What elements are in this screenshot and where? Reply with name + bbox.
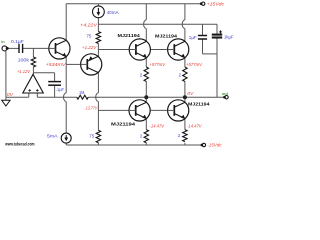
transistor Q1 xyxy=(49,38,70,59)
wire T3 emitter column xyxy=(184,58,186,67)
terminal in xyxy=(2,46,7,51)
resistor R5 2 xyxy=(144,67,148,82)
terminal out xyxy=(225,96,228,99)
wire hop T2 collector over +4.22V xyxy=(144,20,147,29)
svg-text:2: 2 xyxy=(178,72,181,77)
wire Q6 emitter resistor xyxy=(184,119,186,130)
svg-text:+577mV: +577mV xyxy=(186,62,202,68)
svg-text:MJ21194: MJ21194 xyxy=(111,121,136,126)
terminal +15Vdc xyxy=(202,2,205,5)
resistor R7 2 xyxy=(144,130,148,143)
svg-text:+1.22V: +1.22V xyxy=(82,45,97,51)
svg-text:40mA: 40mA xyxy=(107,10,119,15)
op-amp U1 xyxy=(23,74,44,93)
svg-text:www.tubecad.com: www.tubecad.com xyxy=(4,141,34,146)
svg-text:2: 2 xyxy=(140,133,143,138)
svg-text:+4.22V: +4.22V xyxy=(80,22,97,28)
current source I2 5mA xyxy=(61,133,71,143)
resistor R8 2 xyxy=(183,130,187,142)
resistor R1 100k xyxy=(31,57,35,67)
wire output rail right xyxy=(88,96,224,98)
wire cap C4 leads xyxy=(216,24,218,33)
svg-text:100k: 100k xyxy=(18,58,30,63)
transistor Q3 MJ21194 xyxy=(129,39,150,60)
resistor R4 75 xyxy=(96,130,100,143)
transistor Q4 MJ21194 xyxy=(168,39,189,60)
wire input xyxy=(7,47,19,49)
wire Q5 emitter resistor xyxy=(145,119,147,130)
wire Q5-Q6 base link xyxy=(150,109,168,111)
wire hop 5mA over feedback rail xyxy=(63,93,66,102)
svg-text:+1.12V: +1.12V xyxy=(17,69,31,75)
svg-text:5mA: 5mA xyxy=(47,133,58,138)
transistor Q6 MJ21194 xyxy=(168,100,189,121)
capacitor C2 .1uF xyxy=(48,81,61,83)
svg-text:-13.77V: -13.77V xyxy=(85,106,98,112)
node +4.22V wire xyxy=(98,23,217,25)
resistor R3 75 xyxy=(96,32,100,44)
svg-text:1µF: 1µF xyxy=(189,35,197,40)
svg-text:MJ21194: MJ21194 xyxy=(155,33,178,38)
svg-text:2: 2 xyxy=(140,72,143,77)
transistor Q5 MJ21194 xyxy=(129,100,150,121)
capacitor C1 0.1uF xyxy=(18,44,20,53)
wire hop T3 collector over +4.22V xyxy=(182,20,185,29)
capacitor C3 1uF xyxy=(198,35,207,37)
wire cap C3 leads xyxy=(202,24,204,35)
resistor R6 2 xyxy=(183,67,187,82)
current source I1 40mA xyxy=(93,6,105,18)
svg-text:-14.47V: -14.47V xyxy=(150,123,165,129)
node -13.77V wire xyxy=(98,109,129,111)
wire spine middle xyxy=(97,50,99,58)
wire spine top xyxy=(97,4,99,6)
svg-text:+15Vdc: +15Vdc xyxy=(207,2,225,8)
node +1.22V wire xyxy=(98,49,129,51)
node +534mV wire xyxy=(66,63,81,65)
wire caps bottom link xyxy=(203,53,218,55)
terminal -15Vdc xyxy=(202,143,205,146)
svg-text:0.1µF: 0.1µF xyxy=(11,39,24,44)
svg-text:-14.47V: -14.47V xyxy=(187,123,202,129)
node Q5 collector out xyxy=(144,95,148,99)
capacitor C4 1kuF xyxy=(212,34,222,36)
svg-text:in: in xyxy=(1,39,5,44)
wire opamp input stubs xyxy=(28,93,30,97)
wire T3 collector xyxy=(184,4,186,20)
wire T1 emitter to node xyxy=(65,56,67,64)
resistor R2 1M xyxy=(77,95,88,99)
svg-text:0V: 0V xyxy=(7,92,14,98)
transistor Q2 pnp xyxy=(81,54,102,75)
svg-text:1kµF: 1kµF xyxy=(224,34,234,39)
node Q6 collector out xyxy=(183,95,187,99)
svg-text:2: 2 xyxy=(178,133,181,138)
svg-text:.1µF: .1µF xyxy=(56,87,64,92)
svg-text:out: out xyxy=(222,91,229,96)
wire ground 0V vertical xyxy=(5,51,7,97)
svg-text:+577mV: +577mV xyxy=(149,62,165,68)
svg-text:MJ21194: MJ21194 xyxy=(188,102,210,107)
svg-text:-15Vdc: -15Vdc xyxy=(207,143,222,149)
svg-text:+534mV: +534mV xyxy=(46,62,67,68)
wire T2 emitter column xyxy=(145,58,147,67)
wire bottom supply rail xyxy=(66,144,202,146)
wire feedback rail left xyxy=(37,96,77,98)
svg-text:1M: 1M xyxy=(79,90,85,95)
wire hop spine over feedback rail xyxy=(96,93,99,102)
wire T1 collector xyxy=(65,4,67,41)
wire opamp to cap C2 xyxy=(33,72,54,74)
ground xyxy=(5,97,7,100)
svg-text:MJ21194: MJ21194 xyxy=(118,33,141,38)
svg-text:75: 75 xyxy=(86,33,92,38)
wire 100k branch xyxy=(32,48,34,57)
svg-text:75: 75 xyxy=(89,133,95,138)
wire T2 collector xyxy=(145,4,147,20)
wire spine bottom xyxy=(97,110,99,130)
svg-text:0V: 0V xyxy=(187,91,194,97)
wire 5mA branch xyxy=(65,64,67,93)
wire T2-T3 base link xyxy=(150,49,167,51)
wire top supply rail xyxy=(66,3,201,5)
